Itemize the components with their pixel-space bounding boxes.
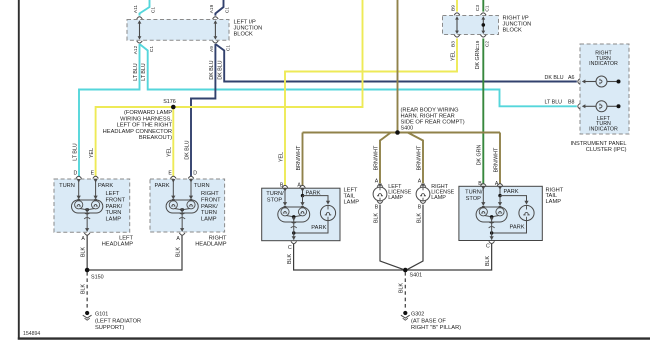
svg-text:B3: B3 [451, 41, 457, 47]
svg-text:PARK: PARK [154, 183, 169, 189]
svg-text:(AT BASE OF: (AT BASE OF [411, 318, 446, 324]
svg-text:FRONT: FRONT [201, 197, 221, 203]
svg-text:LAMP: LAMP [431, 195, 446, 201]
svg-text:C19: C19 [475, 40, 481, 49]
svg-text:LT BLU: LT BLU [141, 63, 147, 81]
svg-text:B8: B8 [568, 99, 575, 105]
svg-text:DK BLU: DK BLU [184, 140, 190, 159]
svg-text:BLK: BLK [287, 254, 293, 264]
svg-text:RIGHT: RIGHT [201, 191, 219, 197]
svg-text:HARN. RIGHT REAR: HARN. RIGHT REAR [401, 113, 455, 119]
svg-text:PARK: PARK [98, 183, 113, 189]
svg-text:INSTRUMENT PANEL: INSTRUMENT PANEL [570, 141, 626, 147]
svg-text:A: A [176, 236, 180, 242]
svg-text:LT BLU: LT BLU [72, 143, 78, 161]
svg-text:PARK: PARK [311, 225, 326, 231]
svg-text:B: B [478, 181, 482, 187]
svg-text:BLK: BLK [485, 256, 491, 266]
svg-text:S400: S400 [401, 126, 414, 132]
svg-text:BLK: BLK [416, 213, 422, 223]
svg-text:LEFT OF THE RIGHT: LEFT OF THE RIGHT [117, 123, 173, 129]
svg-text:DK BLU: DK BLU [218, 60, 224, 79]
svg-text:G302: G302 [411, 312, 424, 318]
svg-text:B: B [375, 205, 379, 211]
svg-text:B: B [418, 205, 422, 211]
svg-text:TURN: TURN [194, 183, 210, 189]
svg-text:A: A [495, 181, 499, 187]
svg-text:(LEFT RADIATOR: (LEFT RADIATOR [95, 318, 141, 324]
svg-text:C1: C1 [485, 5, 491, 11]
svg-text:HEADLAMP CONNECTOR: HEADLAMP CONNECTOR [103, 129, 172, 135]
svg-text:C3: C3 [475, 5, 481, 11]
svg-text:C1: C1 [149, 46, 155, 52]
svg-text:HEADLAMP: HEADLAMP [102, 241, 133, 247]
svg-text:YEL: YEL [278, 152, 284, 162]
svg-text:BREAKOUT): BREAKOUT) [139, 135, 172, 141]
svg-text:(REAR BODY WIRING: (REAR BODY WIRING [401, 107, 459, 113]
svg-text:G101: G101 [95, 312, 108, 318]
svg-text:A12: A12 [133, 45, 139, 54]
svg-text:A: A [81, 236, 85, 242]
svg-text:WIRING HARNESS,: WIRING HARNESS, [120, 116, 172, 122]
svg-text:C2: C2 [485, 41, 491, 47]
svg-text:YEL: YEL [167, 147, 173, 157]
svg-text:BRN/WHT: BRN/WHT [296, 145, 302, 170]
svg-text:LAMP: LAMP [344, 199, 360, 205]
svg-text:BRN/WHT: BRN/WHT [493, 147, 499, 172]
svg-text:INDICATOR: INDICATOR [589, 61, 618, 67]
svg-text:BRN/WHT: BRN/WHT [416, 145, 422, 170]
svg-text:PARK: PARK [510, 225, 525, 231]
svg-text:INDICATOR: INDICATOR [589, 126, 618, 132]
svg-text:154894: 154894 [23, 331, 40, 337]
svg-text:B9: B9 [451, 5, 457, 11]
svg-text:TURN/: TURN/ [266, 191, 284, 197]
svg-text:LAMP: LAMP [106, 217, 122, 223]
svg-text:E: E [168, 171, 172, 177]
svg-text:FRONT: FRONT [106, 197, 126, 203]
svg-text:TURN/: TURN/ [465, 190, 483, 196]
svg-text:A19: A19 [209, 4, 215, 13]
svg-text:C1: C1 [151, 7, 157, 13]
svg-text:PARK/: PARK/ [106, 204, 123, 210]
svg-text:RIGHT: RIGHT [209, 235, 227, 241]
svg-text:STOP: STOP [267, 197, 283, 203]
svg-text:PARK: PARK [504, 189, 519, 195]
svg-text:YEL: YEL [450, 51, 456, 61]
svg-text:A9: A9 [209, 46, 215, 52]
svg-text:RIGHT I/P: RIGHT I/P [503, 15, 529, 21]
svg-text:TURN: TURN [106, 210, 122, 216]
svg-text:A: A [297, 183, 301, 189]
svg-text:S150: S150 [91, 274, 104, 280]
svg-text:A6: A6 [568, 75, 575, 81]
svg-text:E: E [91, 171, 95, 177]
svg-text:C: C [486, 244, 490, 250]
svg-text:LAMP: LAMP [546, 199, 562, 205]
svg-text:LT BLU: LT BLU [133, 63, 139, 81]
svg-text:SIDE OF REAR COMPT): SIDE OF REAR COMPT) [401, 120, 465, 126]
svg-text:A: A [375, 179, 379, 185]
svg-text:HEADLAMP: HEADLAMP [195, 241, 226, 247]
svg-text:A11: A11 [133, 5, 139, 14]
svg-text:LAMP: LAMP [388, 195, 403, 201]
svg-text:STOP: STOP [466, 196, 482, 202]
svg-text:(FORWARD LAMP: (FORWARD LAMP [124, 110, 172, 116]
svg-text:PARK: PARK [306, 190, 321, 196]
svg-text:PARK/: PARK/ [201, 204, 218, 210]
svg-text:BLK: BLK [81, 284, 87, 294]
svg-text:TURN: TURN [59, 183, 75, 189]
svg-text:LAMP: LAMP [201, 217, 217, 223]
svg-text:C1: C1 [225, 45, 231, 51]
svg-text:BLK: BLK [175, 247, 181, 257]
svg-text:SUPPORT): SUPPORT) [95, 325, 124, 331]
svg-text:S176: S176 [163, 99, 176, 105]
svg-text:C1: C1 [225, 7, 231, 13]
svg-text:LT BLU: LT BLU [545, 99, 563, 105]
svg-text:C: C [288, 245, 292, 251]
svg-text:LEFT I/P: LEFT I/P [234, 19, 257, 25]
svg-text:RIGHT "B" PILLAR): RIGHT "B" PILLAR) [411, 325, 461, 331]
svg-text:DK BLU: DK BLU [209, 60, 215, 79]
svg-text:A: A [418, 179, 422, 185]
svg-text:DK GRN: DK GRN [477, 145, 483, 166]
svg-text:YEL: YEL [89, 148, 95, 158]
svg-text:TURN: TURN [201, 210, 217, 216]
svg-text:BLK: BLK [373, 213, 379, 223]
svg-text:D: D [193, 171, 197, 177]
svg-text:BRN/WHT: BRN/WHT [373, 145, 379, 170]
svg-text:BLOCK: BLOCK [503, 28, 522, 34]
svg-text:D: D [73, 171, 77, 177]
svg-text:LEFT: LEFT [106, 191, 120, 197]
svg-text:B: B [280, 183, 284, 189]
svg-text:JUNCTION: JUNCTION [503, 22, 532, 28]
svg-text:BLK: BLK [81, 247, 87, 257]
svg-text:BLOCK: BLOCK [234, 32, 253, 38]
svg-text:S401: S401 [410, 273, 423, 279]
svg-text:JUNCTION: JUNCTION [234, 26, 263, 32]
svg-text:DK BLU: DK BLU [545, 75, 564, 81]
svg-text:LEFT: LEFT [119, 235, 133, 241]
svg-text:BLK: BLK [399, 283, 405, 293]
svg-text:CLUSTER (IPC): CLUSTER (IPC) [586, 147, 627, 153]
svg-text:DK GRN: DK GRN [475, 49, 481, 70]
